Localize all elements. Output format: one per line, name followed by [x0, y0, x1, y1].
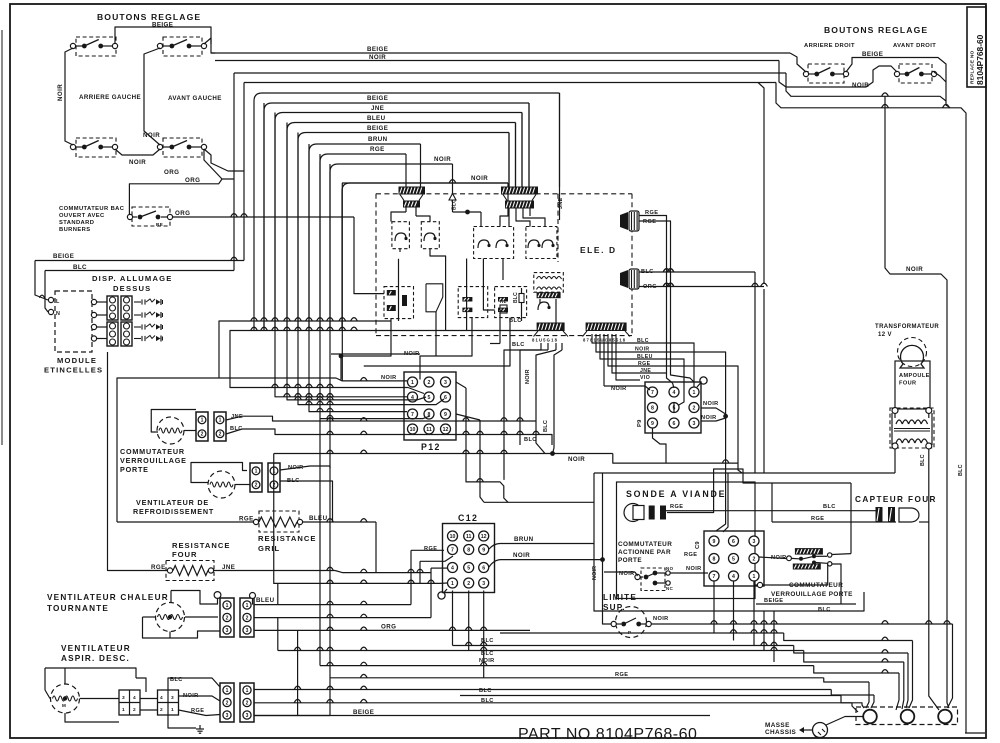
svg-text:4: 4 [133, 695, 136, 701]
svg-text:RE: RE [156, 222, 163, 227]
svg-text:1: 1 [411, 380, 414, 386]
hatched connector block2 [501, 187, 538, 195]
wire sw2 to right bus [204, 38, 215, 53]
svg-text:VERROUILLAGE: VERROUILLAGE [120, 456, 187, 465]
igniter blocks lower [107, 322, 118, 346]
sonde box [617, 482, 756, 599]
lock wires out [832, 553, 851, 556]
wires from igniter boxes down [398, 259, 400, 321]
sonde wires [667, 469, 851, 513]
svg-text:1: 1 [219, 418, 222, 424]
wire aspir right out [254, 715, 330, 717]
wire left riser [65, 48, 73, 145]
svg-text:3: 3 [482, 581, 485, 587]
wire beige bridge right [846, 58, 950, 108]
junction up stub [602, 473, 604, 560]
svg-text:BLEU: BLEU [256, 597, 275, 604]
beige bottom [254, 715, 710, 717]
svg-text:11: 11 [466, 534, 472, 540]
svg-text:ORG: ORG [185, 177, 200, 184]
svg-text:RGE: RGE [811, 516, 824, 522]
svg-text:DESSUS: DESSUS [113, 284, 151, 293]
wire G [254, 689, 831, 691]
wire noir to C9 via dot [596, 334, 726, 531]
verrouillage wires [151, 410, 196, 433]
valve box 1 [384, 287, 414, 319]
wires verrouillage right [757, 582, 762, 587]
black connector bottom 2 [586, 323, 627, 332]
svg-text:10: 10 [450, 534, 456, 540]
svg-text:1: 1 [255, 469, 258, 475]
wires into C12 pin8 [420, 556, 453, 561]
wire four left [108, 352, 168, 571]
igniter box B [421, 222, 439, 249]
svg-text:ARRIERE DROIT: ARRIERE DROIT [804, 43, 855, 49]
vertical x431 [430, 568, 432, 618]
svg-text:BRUN: BRUN [368, 136, 388, 143]
svg-text:2: 2 [467, 581, 470, 587]
svg-text:NOIR: NOIR [852, 82, 869, 89]
svg-text:ACTIONNE PAR: ACTIONNE PAR [618, 549, 671, 556]
wire top loop beige [115, 27, 211, 44]
left bus risers and corners [253, 101, 255, 331]
wire vio stub [616, 334, 640, 380]
chaleur terminal circle [214, 592, 221, 599]
svg-text:3: 3 [246, 628, 249, 634]
long wire y366 [331, 353, 420, 355]
inner box bottom wire [756, 603, 856, 605]
svg-text:1: 1 [246, 688, 249, 694]
switch arriere gauche [76, 37, 116, 56]
aspir conn wires [140, 698, 158, 700]
ampoule transformer [892, 408, 898, 414]
vertical x755 [754, 272, 756, 473]
vertical x320 lower [319, 419, 321, 666]
svg-text:N: N [56, 311, 60, 317]
wire jne stub [612, 334, 667, 373]
switch arriere gauche lower [76, 138, 116, 157]
svg-text:NOIR: NOIR [611, 386, 627, 392]
svg-text:NOIR: NOIR [471, 175, 488, 182]
wire P9 pin9 down [653, 428, 667, 463]
svg-text:3: 3 [753, 539, 756, 545]
svg-text:4: 4 [732, 574, 735, 580]
svg-text:BURNERS: BURNERS [59, 227, 90, 233]
svg-text:STANDARD: STANDARD [59, 220, 94, 226]
svg-text:7: 7 [451, 547, 454, 553]
part number box [967, 7, 986, 87]
right box outline [594, 473, 864, 611]
svg-text:ETINCELLES: ETINCELLES [44, 366, 103, 375]
switch avant droit [899, 64, 932, 83]
svg-text:MASSE: MASSE [765, 722, 790, 729]
motor refroidissement [208, 471, 235, 498]
drop x452 arrow [452, 164, 454, 194]
svg-text:BEIGE: BEIGE [53, 253, 74, 260]
svg-text:BLC: BLC [823, 504, 836, 510]
svg-text:NOIR: NOIR [57, 84, 64, 101]
wire H [460, 695, 841, 697]
svg-text:5: 5 [428, 395, 431, 401]
svg-text:ORG: ORG [381, 624, 396, 631]
svg-text:NOIR: NOIR [129, 159, 146, 166]
wire beige into arriere droit [790, 53, 806, 72]
bus verticals into blocks top [508, 133, 510, 187]
svg-text:BLC: BLC [481, 651, 494, 657]
wire noir to P9 pin7 [603, 334, 605, 386]
bus riser x330 long [329, 164, 331, 716]
svg-text:REFROIDISSEMENT: REFROIDISSEMENT [133, 507, 214, 516]
connector P12 [404, 372, 456, 440]
wire four right jne [214, 570, 335, 572]
wire noir to junction [489, 560, 603, 567]
svg-text:PART NO 8104P768-60: PART NO 8104P768-60 [518, 726, 697, 743]
svg-text:1: 1 [451, 581, 454, 587]
svg-text:DISP. ALLUMAGE: DISP. ALLUMAGE [92, 274, 173, 283]
svg-text:6: 6 [482, 565, 485, 571]
svg-text:VENTILATEUR DE: VENTILATEUR DE [136, 498, 209, 507]
aspir connector B [158, 690, 179, 715]
wires valve bottoms [341, 319, 391, 380]
svg-text:NOIR: NOIR [703, 401, 719, 407]
block1 wires down [405, 208, 407, 213]
svg-text:11: 11 [426, 427, 432, 433]
svg-text:2: 2 [226, 700, 229, 706]
svg-text:NOIR: NOIR [686, 566, 702, 572]
svg-text:BLC: BLC [513, 292, 519, 303]
svg-text:CHASSIS: CHASSIS [765, 729, 797, 736]
svg-text:2: 2 [201, 432, 204, 438]
bullet connector rge [620, 212, 628, 230]
svg-text:BLC: BLC [509, 318, 522, 324]
svg-text:C12: C12 [458, 513, 478, 523]
ampoule wires [894, 449, 896, 473]
svg-text:10: 10 [410, 427, 416, 433]
vertical x764 [758, 83, 764, 285]
svg-text:8: 8 [651, 405, 654, 411]
verrouillage connectors [196, 412, 208, 441]
svg-text:BLEU: BLEU [367, 115, 386, 122]
bus chaleur out 2 [254, 617, 431, 619]
svg-text:6: 6 [732, 539, 735, 545]
svg-text:VENTILATEUR CHALEUR: VENTILATEUR CHALEUR [47, 593, 169, 602]
svg-text:1: 1 [122, 707, 125, 713]
svg-text:1: 1 [753, 574, 756, 580]
aspir connector A [119, 690, 140, 715]
svg-text:BLC: BLC [512, 342, 525, 348]
wire blc to P9 pin1 [592, 334, 694, 388]
ampoule four box [895, 361, 930, 409]
wire p12 right nested [466, 388, 508, 502]
C12 pigtail terminal [438, 592, 445, 599]
bullet connector blc org [620, 270, 628, 288]
svg-text:12 V: 12 V [878, 332, 892, 338]
svg-text:BLC: BLC [543, 420, 549, 432]
svg-text:COMMUTATEUR BAC: COMMUTATEUR BAC [59, 206, 125, 212]
connector P9 [645, 382, 701, 433]
drop x508 [342, 182, 508, 184]
svg-text:1: 1 [201, 418, 204, 424]
chaleur connectors [220, 598, 234, 637]
svg-text:VIO: VIO [640, 375, 650, 381]
svg-text:ASPIR. DESC.: ASPIR. DESC. [61, 654, 130, 663]
svg-text:BLC: BLC [958, 464, 964, 476]
wire bus y73 under [786, 73, 946, 101]
bus hop line y330 [230, 331, 560, 387]
svg-text:NOIR: NOIR [525, 369, 531, 384]
svg-text:BLEU: BLEU [309, 515, 328, 522]
wire pin6 feed [298, 133, 444, 405]
svg-text:3: 3 [171, 695, 174, 701]
switch arriere droit [808, 64, 844, 83]
limite wires [603, 560, 612, 624]
wire org to bus [204, 83, 244, 172]
svg-text:FOUR: FOUR [172, 550, 198, 559]
svg-text:3: 3 [226, 713, 229, 719]
svg-text:5: 5 [732, 556, 735, 562]
module etincelles box [55, 291, 92, 352]
wire pin5 feed [230, 386, 424, 394]
svg-text:RGE: RGE [684, 552, 697, 558]
svg-text:1: 1 [171, 707, 174, 713]
capteur symbol [876, 507, 883, 522]
svg-text:RESISTANCE: RESISTANCE [172, 541, 230, 550]
svg-text:2: 2 [246, 615, 249, 621]
wire D [278, 650, 804, 652]
wires right of P9 [701, 408, 726, 414]
svg-text:2: 2 [255, 483, 258, 489]
wires into C12 pin1 [274, 454, 447, 584]
svg-text:2: 2 [133, 707, 136, 713]
igniter box A [392, 222, 410, 249]
svg-text:GRIL: GRIL [258, 544, 280, 553]
vertical x297 lower [297, 630, 299, 715]
bus hop line y321 [219, 321, 391, 378]
wire org lower [204, 73, 234, 179]
capteur right leg [919, 521, 929, 523]
svg-text:M: M [62, 703, 66, 708]
dashed divider jne [557, 194, 559, 262]
svg-text:BEIGE: BEIGE [367, 95, 388, 102]
svg-text:P12: P12 [421, 442, 441, 452]
svg-text:BLC: BLC [452, 199, 458, 210]
valve box 3 [495, 287, 527, 318]
chaleur pin2 drop [277, 618, 279, 651]
svg-text:8 1 U 5 G 1 8: 8 1 U 5 G 1 8 [532, 338, 558, 343]
svg-text:4: 4 [451, 565, 454, 571]
svg-text:BEIGE: BEIGE [764, 598, 783, 604]
svg-text:P9: P9 [637, 419, 643, 427]
wires below C12 [452, 591, 454, 646]
svg-text:BEIGE: BEIGE [367, 125, 388, 132]
lampe four dashed circle [898, 338, 927, 367]
wire sw2 left riser [144, 48, 160, 145]
wire blc right [639, 271, 755, 273]
svg-text:8: 8 [713, 556, 716, 562]
enclosure ELE D dashed [376, 193, 632, 195]
wire to L N [35, 261, 48, 301]
hatched connector block1 [399, 187, 426, 195]
svg-text:PORTE: PORTE [120, 465, 149, 474]
svg-text:9: 9 [482, 547, 485, 553]
igniter box C [474, 227, 514, 259]
bus chaleur out 1 [254, 604, 411, 606]
junction wire y212 [453, 211, 482, 213]
wire blc from conn [280, 481, 333, 522]
lumiere assembly [795, 548, 823, 555]
svg-text:COMMUTATEUR: COMMUTATEUR [618, 541, 672, 548]
svg-text:BOUTONS REGLAGE: BOUTONS REGLAGE [97, 12, 201, 22]
spark gaps [134, 301, 141, 303]
connector C9 [704, 531, 764, 586]
sonde symbol [624, 504, 642, 522]
door switch wires [604, 571, 635, 573]
svg-text:9: 9 [651, 421, 654, 427]
svg-text:AVANT DROIT: AVANT DROIT [893, 43, 936, 49]
wires below connector1 [540, 343, 542, 350]
svg-text:7: 7 [651, 390, 654, 396]
wire pin8 feed [320, 154, 430, 419]
svg-text:BRUN: BRUN [514, 536, 534, 543]
svg-text:7: 7 [713, 574, 716, 580]
svg-text:2: 2 [160, 707, 163, 713]
svg-text:RGE: RGE [239, 516, 254, 523]
svg-text:NOIR: NOIR [513, 552, 530, 559]
svg-text:3: 3 [246, 713, 249, 719]
motor chaleur [156, 603, 185, 632]
svg-text:NOIR: NOIR [701, 415, 717, 421]
svg-text:L: L [56, 299, 60, 305]
svg-text:6: 6 [673, 421, 676, 427]
bus chaleur out 3 ORG [254, 629, 530, 631]
component RL [500, 305, 507, 313]
svg-text:NOIR: NOIR [653, 616, 669, 622]
wire noir lower link [115, 149, 160, 155]
wire jne blc right [226, 416, 536, 421]
svg-text:BLC: BLC [524, 437, 537, 443]
aspir connectors right [220, 683, 234, 722]
drop x420 into block1 [420, 144, 422, 187]
svg-text:RESISTANCE: RESISTANCE [258, 534, 316, 543]
wire y473 top of right box [594, 472, 895, 474]
svg-text:LIMITE: LIMITE [603, 593, 637, 602]
svg-text:9: 9 [713, 539, 716, 545]
junction noir y453 [274, 453, 613, 455]
wire org right [639, 286, 764, 288]
svg-text:NOIR: NOIR [434, 156, 451, 163]
wire c9 pin2 to lock [759, 557, 786, 559]
igniter box D [526, 227, 557, 259]
svg-text:5: 5 [467, 565, 470, 571]
switch bac [132, 207, 170, 226]
wire C [453, 645, 794, 647]
svg-text:12: 12 [443, 427, 449, 433]
igniter blocks upper [107, 296, 118, 320]
svg-text:ORG: ORG [164, 169, 179, 176]
svg-text:RGE: RGE [615, 672, 628, 678]
motor verrouillage [157, 417, 184, 444]
wire noir under arriere droit [779, 61, 897, 88]
wire bus y73 [234, 72, 786, 74]
black connector bottom 1 [537, 323, 565, 332]
svg-text:ARRIERE GAUCHE: ARRIERE GAUCHE [79, 94, 141, 101]
svg-text:3: 3 [444, 380, 447, 386]
wire bac out [173, 216, 354, 218]
svg-text:JNE: JNE [371, 105, 384, 112]
svg-text:PORTE: PORTE [618, 557, 642, 564]
wire bleu to P9 pin5 [600, 334, 684, 406]
staircase verticals below C9 [713, 581, 715, 633]
svg-text:2: 2 [246, 700, 249, 706]
svg-text:2: 2 [428, 380, 431, 386]
aspir wires [45, 668, 136, 678]
valve box 2 [458, 287, 488, 318]
big rect left harness [117, 378, 342, 522]
svg-text:AMPOULE: AMPOULE [899, 373, 930, 379]
bleu stub [250, 593, 256, 599]
bottom right verticals to frame [947, 703, 949, 708]
svg-text:RGE: RGE [643, 219, 656, 225]
chaleur wires [171, 591, 218, 605]
svg-text:4: 4 [160, 695, 163, 701]
svg-text:3: 3 [693, 421, 696, 427]
wires into C12 pin7 [411, 549, 444, 551]
svg-text:1: 1 [226, 688, 229, 694]
lampe bulb [900, 345, 924, 368]
svg-text:NOIR: NOIR [592, 566, 598, 580]
wire gril left [117, 521, 253, 523]
svg-text:RL: RL [500, 299, 507, 304]
wire c9 pin6 feed [723, 473, 728, 532]
wire noir pin1 [342, 183, 407, 381]
terminal block masse [856, 707, 958, 725]
svg-text:RGE: RGE [670, 504, 683, 510]
aspir ground [168, 715, 196, 728]
wire right of P12 [456, 382, 466, 388]
refroidissement wires [191, 463, 247, 483]
svg-text:NC: NC [666, 586, 674, 591]
svg-text:ELE. D: ELE. D [580, 245, 617, 255]
wire pin7 feed [309, 144, 407, 412]
svg-text:NO: NO [666, 566, 674, 571]
svg-text:BOUTONS REGLAGE: BOUTONS REGLAGE [824, 25, 928, 35]
switch avant gauche lower [163, 138, 202, 157]
wire B [500, 632, 784, 634]
svg-text:BEIGE: BEIGE [367, 46, 388, 53]
connector C12 [443, 524, 495, 593]
wire pin5b feed [287, 123, 426, 400]
svg-text:8104P768-60: 8104P768-60 [975, 34, 985, 85]
svg-text:NOIR: NOIR [568, 456, 585, 463]
wire noir from conn [280, 466, 330, 470]
bus riser x264 [263, 103, 265, 331]
svg-text:BLC: BLC [481, 638, 494, 644]
module output terminals [91, 299, 96, 304]
svg-text:2: 2 [219, 432, 222, 438]
motor aspir [51, 684, 80, 713]
svg-text:1: 1 [246, 603, 249, 609]
svg-text:RGE: RGE [424, 546, 437, 552]
svg-text:ORG: ORG [175, 210, 190, 217]
svg-text:4: 4 [673, 390, 676, 396]
svg-text:BLC: BLC [818, 607, 831, 613]
chaleur pin1 riser [277, 583, 279, 604]
svg-text:OUVERT AVEC: OUVERT AVEC [59, 213, 105, 219]
wires into P9 [604, 386, 650, 390]
bus riser x354 to valve [354, 217, 384, 294]
drop x406 [405, 154, 407, 187]
svg-text:2: 2 [226, 615, 229, 621]
